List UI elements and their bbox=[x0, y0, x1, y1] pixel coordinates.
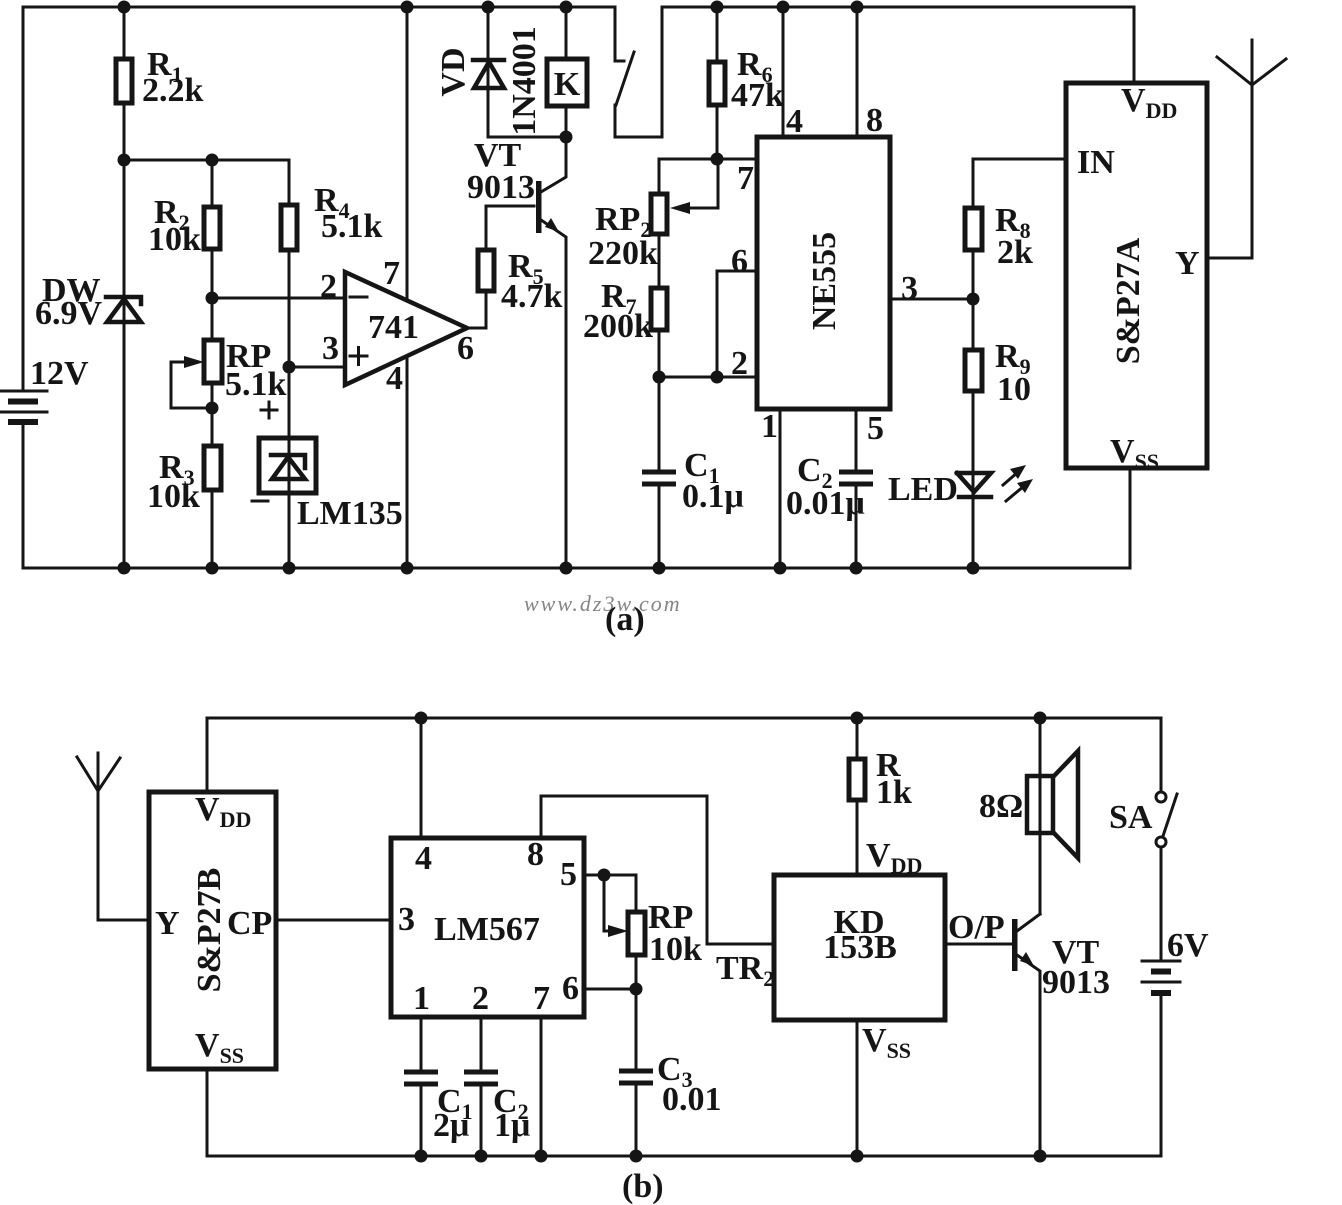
svg-text:5: 5 bbox=[867, 410, 884, 447]
svg-text:6: 6 bbox=[562, 970, 579, 1007]
svg-text:1: 1 bbox=[413, 980, 430, 1017]
svg-text:9013: 9013 bbox=[1042, 964, 1110, 1001]
svg-text:3: 3 bbox=[901, 270, 918, 307]
svg-text:IN: IN bbox=[1077, 144, 1115, 181]
svg-text:6V: 6V bbox=[1167, 927, 1209, 964]
svg-text:10k: 10k bbox=[148, 221, 201, 258]
svg-text:8: 8 bbox=[866, 102, 883, 139]
svg-text:5: 5 bbox=[560, 856, 577, 893]
svg-text:S&P27B: S&P27B bbox=[191, 868, 228, 993]
svg-text:6.9V: 6.9V bbox=[35, 295, 103, 332]
svg-text:2: 2 bbox=[472, 980, 489, 1017]
svg-text:12V: 12V bbox=[30, 355, 89, 392]
svg-text:7: 7 bbox=[737, 160, 754, 197]
svg-text:(a): (a) bbox=[605, 601, 645, 638]
svg-text:1N4001: 1N4001 bbox=[506, 26, 543, 136]
svg-text:K: K bbox=[554, 66, 581, 103]
svg-text:Y: Y bbox=[155, 905, 180, 942]
svg-text:0.01: 0.01 bbox=[662, 1081, 722, 1118]
svg-text:4: 4 bbox=[415, 840, 432, 877]
svg-text:LED: LED bbox=[888, 471, 958, 508]
svg-text:1k: 1k bbox=[876, 774, 912, 811]
svg-text:3: 3 bbox=[398, 901, 415, 938]
svg-text:O/P: O/P bbox=[948, 909, 1005, 946]
svg-text:0.01μ: 0.01μ bbox=[786, 485, 865, 522]
svg-text:LM135: LM135 bbox=[297, 495, 403, 532]
svg-text:4: 4 bbox=[786, 103, 803, 140]
svg-text:10k: 10k bbox=[649, 931, 702, 968]
svg-text:5.1k: 5.1k bbox=[225, 366, 287, 403]
svg-text:5.1k: 5.1k bbox=[321, 208, 383, 245]
svg-text:7: 7 bbox=[383, 255, 400, 292]
svg-text:NE555: NE555 bbox=[806, 232, 843, 330]
svg-text:SA: SA bbox=[1109, 799, 1153, 836]
svg-text:6: 6 bbox=[731, 243, 748, 280]
svg-text:4.7k: 4.7k bbox=[501, 278, 563, 315]
svg-text:200k: 200k bbox=[583, 308, 653, 345]
svg-text:2: 2 bbox=[320, 268, 337, 305]
svg-text:3: 3 bbox=[322, 330, 339, 367]
svg-text:2k: 2k bbox=[997, 234, 1033, 271]
svg-text:7: 7 bbox=[533, 980, 550, 1017]
svg-text:9013: 9013 bbox=[467, 169, 535, 206]
svg-text:2μ: 2μ bbox=[433, 1107, 469, 1144]
svg-text:741: 741 bbox=[368, 309, 419, 346]
svg-text:S&P27A: S&P27A bbox=[1110, 237, 1147, 364]
svg-text:1: 1 bbox=[761, 408, 778, 445]
svg-text:(b): (b) bbox=[622, 1168, 664, 1205]
svg-text:220k: 220k bbox=[588, 235, 658, 272]
svg-text:Y: Y bbox=[1175, 245, 1200, 282]
svg-text:LM567: LM567 bbox=[434, 911, 540, 948]
svg-text:47k: 47k bbox=[731, 77, 784, 114]
svg-text:CP: CP bbox=[227, 905, 272, 942]
svg-text:2: 2 bbox=[731, 345, 748, 382]
svg-text:0.1μ: 0.1μ bbox=[682, 478, 744, 515]
svg-text:6: 6 bbox=[457, 330, 474, 367]
svg-text:10: 10 bbox=[997, 371, 1031, 408]
svg-text:2.2k: 2.2k bbox=[142, 72, 204, 109]
svg-text:10k: 10k bbox=[147, 478, 200, 515]
svg-text:153B: 153B bbox=[823, 929, 897, 966]
svg-text:1μ: 1μ bbox=[494, 1107, 530, 1144]
svg-text:8: 8 bbox=[527, 836, 544, 873]
svg-text:VD: VD bbox=[435, 47, 472, 96]
svg-text:www.dz3w.com: www.dz3w.com bbox=[524, 591, 682, 616]
svg-text:4: 4 bbox=[386, 360, 403, 397]
svg-text:8Ω: 8Ω bbox=[979, 788, 1023, 825]
